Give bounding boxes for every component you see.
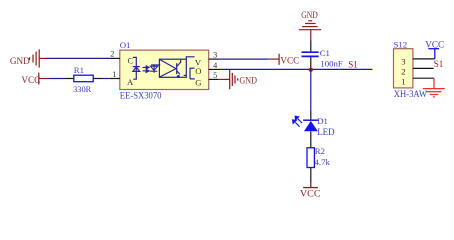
- junction: [309, 68, 313, 72]
- opto internal: LED diode: [133, 67, 140, 72]
- svg-text:2: 2: [110, 49, 114, 58]
- power port GND at pin5: [218, 70, 238, 90]
- svg-text:1: 1: [112, 70, 116, 79]
- svg-text:1: 1: [401, 77, 405, 87]
- pin 3: [209, 58, 219, 60]
- svg-text:VCC: VCC: [280, 55, 299, 65]
- svg-text:2: 2: [401, 66, 405, 76]
- svg-text:O1: O1: [120, 40, 131, 50]
- svg-text:G: G: [195, 77, 201, 87]
- svg-text:XH-3AW: XH-3AW: [394, 89, 428, 99]
- svg-text:3: 3: [213, 51, 217, 60]
- pin 1: [110, 78, 120, 80]
- wire VCC to R1: [49, 78, 66, 80]
- power port GND left: [30, 49, 48, 67]
- opto internal: amplifier box and triangle: [159, 59, 186, 77]
- svg-text:S1: S1: [434, 59, 444, 69]
- wire R1 to pin1: [103, 78, 110, 80]
- svg-text:330R: 330R: [73, 84, 91, 94]
- LED emission arrows: [293, 116, 303, 126]
- svg-text:100nF: 100nF: [320, 59, 343, 69]
- svg-text:O: O: [195, 66, 201, 76]
- svg-text:5: 5: [213, 71, 217, 80]
- svg-text:S12: S12: [394, 39, 408, 49]
- opto internal: transistor: [177, 59, 181, 74]
- opto coupler O1 body: [120, 50, 209, 89]
- opto internal: input bracket: [133, 57, 136, 79]
- svg-text:VCC: VCC: [425, 40, 444, 50]
- svg-text:R2: R2: [315, 146, 325, 156]
- svg-text:C1: C1: [320, 48, 330, 58]
- svg-text:3: 3: [401, 56, 406, 66]
- connector S12 body: [394, 49, 413, 88]
- pin 2: [110, 57, 120, 59]
- svg-text:GND: GND: [239, 75, 257, 85]
- power port VCC left: [39, 73, 49, 85]
- svg-text:D1: D1: [317, 116, 328, 126]
- wire junction down to D1: [310, 69, 312, 110]
- LED D1: [310, 110, 312, 120]
- pin 4: [209, 68, 219, 70]
- svg-text:C: C: [128, 55, 134, 65]
- svg-text:A: A: [127, 77, 134, 87]
- wire pin3 to VCC: [219, 58, 269, 60]
- svg-text:EE-SX3070: EE-SX3070: [120, 91, 162, 101]
- opto internal: photodiode: [150, 65, 161, 73]
- svg-text:GND: GND: [301, 10, 318, 20]
- svg-text:S1: S1: [348, 60, 358, 70]
- pin 5: [209, 78, 218, 80]
- svg-text:4.7k: 4.7k: [315, 157, 331, 167]
- power port VCC top right (blue): [428, 49, 439, 59]
- power port VCC bottom: [303, 183, 318, 188]
- svg-text:R1: R1: [74, 65, 84, 75]
- svg-text:GND: GND: [10, 56, 30, 66]
- opto internal: emission arrows: [143, 66, 150, 73]
- resistor R2: [307, 148, 314, 168]
- svg-text:VCC: VCC: [21, 75, 40, 85]
- svg-text:LED: LED: [317, 127, 335, 137]
- wire net S1 from pin4: [219, 68, 372, 70]
- wire net GND to pin2: [47, 57, 110, 59]
- power port GND bottom right (red): [423, 78, 445, 97]
- power port VCC right of pin3: [269, 54, 279, 65]
- opto internal: V O G pin brackets: [184, 57, 195, 79]
- capacitor C1: [310, 41, 312, 52]
- svg-text:VCC: VCC: [300, 189, 321, 200]
- svg-text:4: 4: [213, 61, 217, 70]
- resistor R1: [66, 78, 74, 80]
